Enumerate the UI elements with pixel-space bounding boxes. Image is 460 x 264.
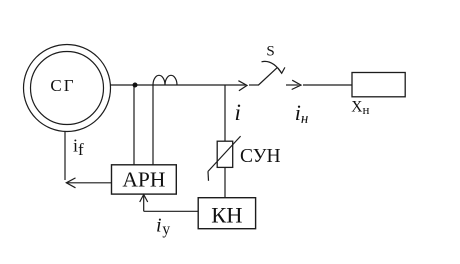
wire KN to ARN horizontal (144, 210, 199, 212)
svg-text:СГ: СГ (50, 76, 75, 95)
arrowhead current i (238, 81, 247, 91)
switch arc arrowhead (278, 67, 285, 73)
generator G inner circle (31, 52, 104, 125)
wire field winding vertical (64, 132, 66, 181)
svg-text:i: i (235, 100, 241, 125)
current transformer coil (153, 75, 177, 85)
wire down to SUN (224, 85, 226, 141)
switch S closing arc (262, 61, 282, 73)
arrowhead current i_n (292, 80, 301, 89)
arrowhead KN to ARN (140, 195, 148, 203)
svg-text:АРН: АРН (122, 168, 165, 192)
wire generator to arrow i (111, 84, 246, 86)
junction node dot (133, 83, 138, 88)
svg-text:S: S (266, 44, 274, 60)
wire ARN to field arrow (67, 182, 112, 184)
varistor SUN diagonal (208, 136, 241, 172)
varistor SUN diagonal tail (207, 172, 210, 181)
svg-text:СУН: СУН (240, 146, 281, 167)
wire coil tap down to ARN (right) (152, 85, 154, 165)
KN box (198, 198, 255, 229)
wire KN to ARN vertical (143, 195, 145, 211)
generator G outer circle (24, 45, 111, 132)
svg-text:Xн: Xн (351, 99, 369, 118)
load resistor box Xn (352, 73, 405, 97)
wire arrow i_n tail (286, 84, 299, 86)
wire arrow to switch (249, 84, 259, 86)
wire SUN to KN (224, 167, 226, 197)
switch S blade (259, 68, 278, 85)
arrowhead into field winding (66, 178, 75, 188)
svg-text:if: if (73, 136, 84, 159)
ARN regulator box (112, 165, 177, 194)
wire switch to load (303, 84, 352, 86)
svg-text:КН: КН (211, 202, 242, 227)
wire junction down to ARN (left) (133, 85, 135, 165)
varistor SUN box (217, 141, 233, 167)
